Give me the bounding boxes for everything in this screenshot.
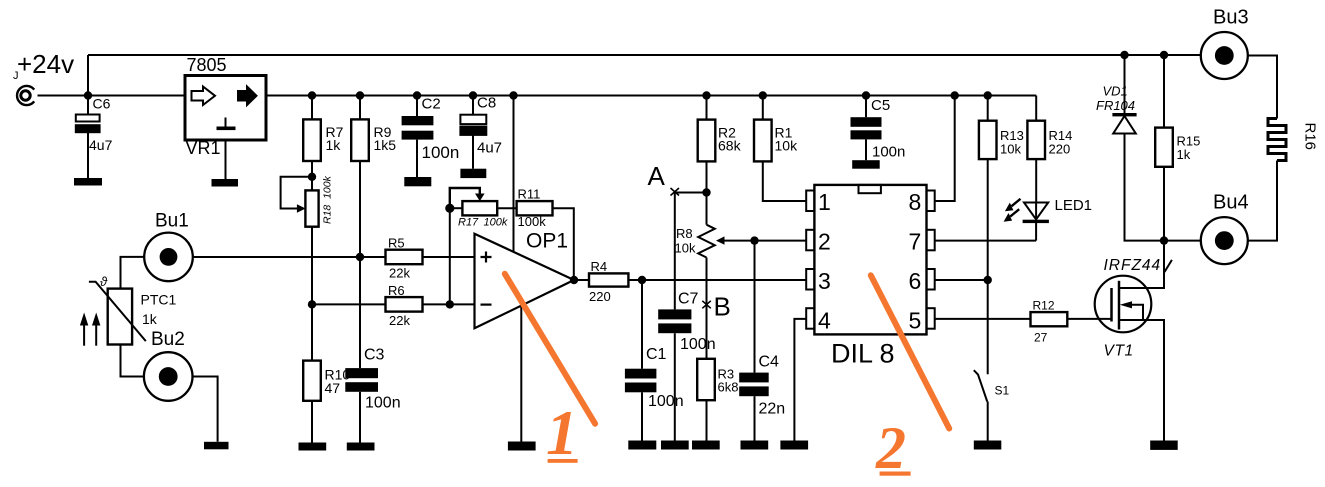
resistor R7 <box>303 96 343 177</box>
potentiometer R17 <box>450 188 517 229</box>
resistor R1 <box>754 96 806 202</box>
ground VT1 source <box>1150 441 1178 450</box>
node junction rail/C8 <box>469 91 477 99</box>
wire VR1 gnd pin <box>225 140 227 179</box>
svg-text:27: 27 <box>1034 331 1048 345</box>
svg-text:C6: C6 <box>93 96 111 112</box>
annotation orange numeral 1 <box>546 397 578 468</box>
svg-text:1k: 1k <box>142 311 158 327</box>
svg-text:100n: 100n <box>648 393 684 410</box>
node junction op-amp output <box>570 276 578 284</box>
node Bu3 label <box>1213 7 1249 29</box>
node junction VD1-R15/drain/Bu4 <box>1160 236 1168 244</box>
ground C5 <box>852 160 880 169</box>
svg-text:100n: 100n <box>365 395 401 412</box>
ground OP1 <box>508 442 536 451</box>
wire pin4 to ground <box>794 319 806 441</box>
capacitor C8 polarized <box>460 95 502 169</box>
svg-text:R6: R6 <box>388 283 405 298</box>
svg-text:100n: 100n <box>422 143 460 162</box>
capacitor C4 <box>739 241 785 441</box>
svg-text:VD1: VD1 <box>1103 84 1128 99</box>
node B label <box>714 292 731 322</box>
svg-text:R8: R8 <box>676 226 693 241</box>
node junction rail/C2 <box>413 91 421 99</box>
node A test point marker <box>671 188 680 196</box>
pin 1 <box>806 189 831 215</box>
svg-text:1: 1 <box>818 189 831 215</box>
node J label <box>13 70 19 82</box>
node junction pin2/C4 <box>750 236 758 244</box>
ground C7 <box>661 441 689 450</box>
transistor Q-VT1 IRFZ44 <box>1095 241 1172 441</box>
light arrows into PTC1 <box>80 313 101 346</box>
svg-text:5: 5 <box>909 308 922 334</box>
ground S1 <box>974 441 1002 450</box>
resistor R2 <box>698 96 742 193</box>
wire R13 junction to S1 <box>987 280 989 374</box>
wire pin2 junction to DIL8 <box>755 240 807 242</box>
wire node A down to C7 <box>674 193 676 310</box>
svg-text:C1: C1 <box>646 346 667 363</box>
capacitor C3 <box>345 347 400 443</box>
node A label <box>648 161 666 191</box>
svg-text:1k5: 1k5 <box>374 137 397 153</box>
svg-text:DIL 8: DIL 8 <box>831 339 895 369</box>
svg-text:R11: R11 <box>518 187 541 202</box>
annotation orange stroke 1 <box>505 274 595 424</box>
wire Bu3 to R16 <box>1248 56 1277 119</box>
svg-text:R18 100k: R18 100k <box>322 175 334 224</box>
svg-text:VR1: VR1 <box>186 138 221 158</box>
wire pin6 to R13 line <box>935 279 988 281</box>
connector J input plug <box>17 86 34 105</box>
connector Bu4 <box>1201 217 1248 264</box>
ground R10 <box>299 443 327 451</box>
node Bu1 label <box>155 211 189 232</box>
potentiometer R8 <box>675 193 755 359</box>
wire pin8 to +5v rail <box>935 96 955 202</box>
node junction top rail/R15 <box>1160 51 1168 59</box>
resistor R11 <box>517 187 553 230</box>
svg-text:C5: C5 <box>871 97 890 114</box>
svg-text:C2: C2 <box>422 96 441 113</box>
regulator U-VR1 7805 box <box>185 55 266 158</box>
capacitor C5 <box>851 96 906 161</box>
node junction R9/plus line <box>356 253 364 261</box>
pin 2 <box>806 229 831 255</box>
connector Bu3 <box>1201 32 1248 79</box>
switch S1 <box>974 370 1010 440</box>
thermistor PTC1 <box>89 274 177 345</box>
svg-text:10k: 10k <box>775 138 799 154</box>
node +24v label <box>17 49 74 79</box>
wire Bu1 right to R5 (+ input line) <box>193 256 386 258</box>
svg-text:6k8: 6k8 <box>718 380 739 395</box>
svg-text:4u7: 4u7 <box>477 140 502 157</box>
node junction +24v/C6 <box>84 91 92 99</box>
svg-text:1: 1 <box>546 397 578 468</box>
wire R11 to output <box>553 208 574 280</box>
resistor R10 <box>303 304 350 442</box>
svg-text:4u7: 4u7 <box>89 137 113 153</box>
node junction top rail/VD1 <box>1120 51 1128 59</box>
wire node A to junction <box>675 192 707 194</box>
ground C1 <box>628 441 656 450</box>
svg-text:OP1: OP1 <box>526 230 568 253</box>
potentiometer R18 <box>281 175 334 226</box>
svg-text:1k: 1k <box>1177 147 1191 162</box>
ground C8 <box>460 169 486 178</box>
svg-text:IRFZ44: IRFZ44 <box>1104 257 1162 274</box>
connector Bu1 <box>144 233 193 282</box>
wire Bu1 left to PTC1 <box>121 257 145 289</box>
IC U1 DIL8 body <box>814 185 926 369</box>
node junction pin6/R13 <box>984 276 992 284</box>
svg-text:2: 2 <box>875 415 906 481</box>
svg-text:10k: 10k <box>1000 142 1021 157</box>
svg-text:2: 2 <box>818 229 831 255</box>
wire pin7 to LED1 <box>935 240 1036 242</box>
svg-text:Bu2: Bu2 <box>151 329 185 350</box>
ground C4 <box>741 441 769 450</box>
node junction R18-R10/minus line <box>308 300 316 308</box>
op-amp OP1 <box>475 230 575 329</box>
svg-text:R5: R5 <box>388 236 405 251</box>
ground C2 <box>404 177 431 186</box>
resistor R13 <box>979 96 1024 281</box>
svg-text:22k: 22k <box>389 266 410 281</box>
wire R16 to Bu4 <box>1248 161 1277 241</box>
pin 4 <box>806 308 831 334</box>
resistor R15 <box>1155 55 1200 241</box>
svg-text:VT1: VT1 <box>1104 343 1134 360</box>
svg-text:22k: 22k <box>389 313 410 328</box>
node junction rail/R13 <box>984 91 992 99</box>
wire R18 to minus line <box>311 227 313 305</box>
ground Bu2 <box>204 442 229 450</box>
wire +5v rail <box>266 95 1036 97</box>
node junction rail/pin8 <box>951 91 959 99</box>
svg-text:7: 7 <box>909 229 922 255</box>
diode LED1 <box>1023 197 1092 241</box>
LED1 emission arrows <box>1004 199 1021 222</box>
svg-text:J: J <box>13 70 19 82</box>
svg-text:+24v: +24v <box>17 49 74 79</box>
svg-text:A: A <box>648 161 666 191</box>
ground C3 <box>347 443 375 451</box>
node Bu2 label <box>151 329 185 350</box>
wire PTC1 to Bu2 <box>121 345 144 377</box>
node junction rail/R1 <box>759 91 767 99</box>
resistor R3 <box>697 359 738 441</box>
ground C6 <box>74 178 102 186</box>
svg-text:8: 8 <box>909 189 922 215</box>
node junction rail/R7 <box>308 91 316 99</box>
svg-text:6: 6 <box>909 268 922 294</box>
node junction rail/opamp supply <box>509 91 517 99</box>
svg-text:Bu1: Bu1 <box>155 211 189 232</box>
node junction R17/minus line <box>446 300 454 308</box>
svg-text:7805: 7805 <box>187 55 227 75</box>
node junction rail/R9 <box>356 91 364 99</box>
pin 5 <box>909 308 935 334</box>
svg-text:B: B <box>714 292 731 322</box>
svg-text:68k: 68k <box>718 138 742 154</box>
capacitor C2 <box>402 96 460 178</box>
connector Bu2 <box>144 352 193 401</box>
wire Bu2 to ground <box>193 377 218 442</box>
node junction rail/C5 <box>862 91 870 99</box>
svg-text:22n: 22n <box>759 401 786 418</box>
svg-text:Bu3: Bu3 <box>1213 7 1249 29</box>
resistor R9 <box>351 96 396 258</box>
svg-text:4: 4 <box>818 308 831 334</box>
svg-text:220: 220 <box>1049 142 1071 157</box>
diode VD1 FR104 <box>1096 55 1164 241</box>
svg-text:47: 47 <box>325 380 341 396</box>
svg-text:R12: R12 <box>1033 299 1055 313</box>
wire R9 junction down to C3 <box>359 257 361 368</box>
pin 8 <box>909 189 935 215</box>
node junction R17 left/wiper <box>445 204 454 213</box>
svg-text:100k: 100k <box>518 214 547 229</box>
svg-text:R16: R16 <box>1302 123 1319 151</box>
wire rail to op-amp body <box>513 96 515 253</box>
node junction R2/R8/A <box>702 188 710 196</box>
annotation orange numeral 2 <box>875 415 911 481</box>
svg-text:3: 3 <box>818 268 831 294</box>
wire J to 7805 input <box>38 95 186 97</box>
wire R4 to DIL8 pin3 <box>628 279 806 281</box>
resistor R4 <box>574 259 628 304</box>
resistor R14 <box>1027 96 1072 203</box>
wire +24v riser to top rail <box>87 55 89 96</box>
svg-text:C7: C7 <box>678 291 699 308</box>
wire minus line left segment <box>312 303 386 305</box>
ground VR1 <box>212 179 239 187</box>
wire R17 junction down to minus line <box>449 208 451 304</box>
svg-text:R17: R17 <box>458 217 479 229</box>
svg-text:C8: C8 <box>477 95 496 112</box>
svg-text:10k: 10k <box>675 241 696 256</box>
capacitor C6 <box>76 96 113 179</box>
svg-text:100n: 100n <box>680 336 716 353</box>
node B test point marker <box>702 301 711 309</box>
resistor R12 <box>1031 299 1112 345</box>
pin 3 <box>806 268 831 294</box>
svg-text:S1: S1 <box>995 384 1010 398</box>
pin 6 <box>909 268 935 294</box>
svg-text:C3: C3 <box>364 347 385 364</box>
node Bu4 label <box>1213 192 1249 214</box>
svg-text:Bu4: Bu4 <box>1213 192 1249 214</box>
capacitor C7 <box>658 291 715 441</box>
svg-text:100n: 100n <box>872 144 905 161</box>
resistor R5 <box>386 236 475 281</box>
resistor R16 <box>1268 119 1319 161</box>
wire top rail to Bu3 <box>88 54 1201 56</box>
svg-text:C4: C4 <box>759 354 780 371</box>
svg-text:PTC1: PTC1 <box>141 292 177 308</box>
node junction R7/R18 <box>308 173 316 181</box>
resistor R6 <box>386 283 475 328</box>
annotation orange stroke 2 <box>871 275 949 428</box>
wire op-amp ground pin <box>520 306 522 442</box>
pin 7 <box>909 229 935 255</box>
svg-text:100k: 100k <box>484 217 508 229</box>
wire Bu4 to junction <box>1164 240 1201 242</box>
node junction rail/R2 <box>702 91 710 99</box>
ground pin4 <box>780 441 808 450</box>
svg-text:FR104: FR104 <box>1096 98 1135 113</box>
node junction R4/C1 <box>638 276 646 284</box>
svg-text:ϑ: ϑ <box>100 274 108 289</box>
svg-text:220: 220 <box>589 289 611 304</box>
ground R3 <box>692 441 720 450</box>
capacitor C1 <box>625 280 684 441</box>
svg-text:R4: R4 <box>591 259 608 274</box>
wire pin5 to R12 <box>935 318 1031 320</box>
svg-text:1k: 1k <box>326 137 342 153</box>
svg-text:LED1: LED1 <box>1055 197 1093 214</box>
